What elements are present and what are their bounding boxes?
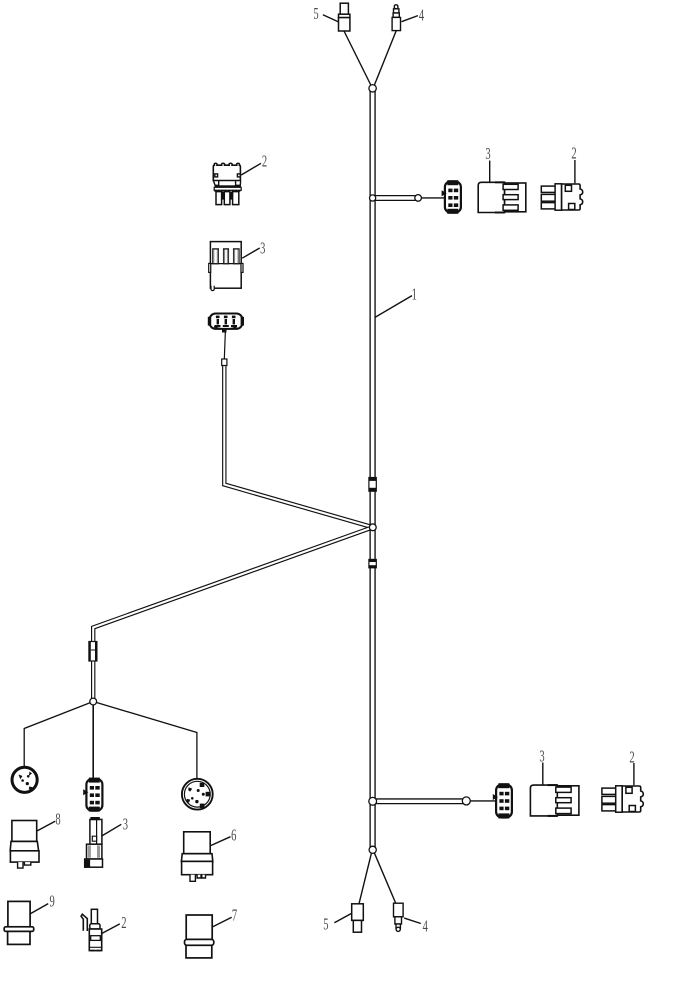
- cover 7: [185, 915, 214, 958]
- label 2 (bottom middle item): [102, 914, 126, 934]
- junction node lower-left: [90, 698, 97, 705]
- node upper branch mid: [415, 195, 422, 202]
- wire bottom-left to connector 5: [359, 853, 372, 904]
- svg-text:2: 2: [629, 748, 634, 767]
- wire left branch from trunk junction (double line): [93, 527, 373, 701]
- wire single to lower right connector: [466, 800, 496, 802]
- connector 5 (top): [339, 3, 350, 31]
- svg-text:2: 2: [121, 914, 126, 933]
- junction node top: [369, 85, 376, 92]
- label 7: [213, 906, 237, 927]
- label 2 (lower right): [629, 748, 634, 785]
- svg-text:4: 4: [423, 917, 428, 936]
- connector 3 (upper right): [478, 181, 526, 213]
- connector 3 (left): [209, 242, 243, 291]
- connector 2 prongs: [216, 192, 222, 205]
- label 8: [37, 810, 60, 831]
- svg-text:2: 2: [571, 144, 576, 163]
- label 5 (top): [313, 5, 338, 24]
- svg-text:4: 4: [419, 6, 424, 25]
- harness-side 3-pin connector (upper right, dark): [442, 180, 461, 214]
- label 3 (upper right): [485, 145, 490, 182]
- svg-text:8: 8: [55, 810, 60, 829]
- connector 4 (bottom): [394, 903, 404, 931]
- sleeve on left branch wire: [89, 642, 97, 662]
- sleeve band on trunk lower: [369, 559, 376, 567]
- sleeve band on trunk upper: [369, 478, 376, 492]
- svg-text:6: 6: [231, 826, 236, 845]
- svg-text:7: 7: [232, 906, 237, 925]
- wire main trunk (double line): [369, 89, 375, 850]
- node lower branch mid: [462, 797, 470, 805]
- label 4 (bottom): [404, 917, 428, 936]
- wire top-left from connector 5 to junction: [344, 31, 372, 87]
- connector 3 (bottom-left item): [85, 817, 103, 867]
- junction node bottom: [369, 846, 376, 853]
- label 5 (bottom): [323, 913, 351, 934]
- svg-text:2: 2: [262, 152, 267, 171]
- wire fan middle to small connector: [92, 702, 94, 778]
- wire bottom-right to connector 4: [374, 853, 396, 904]
- round 6-pin connector (lower): [182, 779, 213, 810]
- svg-text:9: 9: [49, 892, 54, 911]
- svg-text:5: 5: [313, 5, 318, 24]
- wire top-right from connector 4 to junction: [374, 31, 397, 88]
- label 6: [211, 826, 237, 845]
- cover 9: [4, 901, 34, 944]
- svg-text:3: 3: [260, 239, 265, 258]
- wire branch right upper (double line): [373, 195, 418, 201]
- connector 2 (upper-left): [213, 163, 241, 204]
- connector 4 (top): [392, 5, 400, 31]
- svg-text:3: 3: [539, 747, 544, 766]
- wire end cap: [222, 359, 227, 366]
- svg-text:5: 5: [323, 915, 328, 934]
- junction node lower branch: [369, 797, 377, 805]
- wire fan left to round connector: [24, 702, 93, 767]
- connector 2 band: [214, 187, 241, 190]
- wire fan right to round connector: [93, 702, 197, 779]
- label 3 (bottom left item): [102, 815, 129, 836]
- oval connector (top view): [208, 314, 244, 333]
- junction node upper branch: [370, 195, 376, 201]
- harness-side 3-pin connector (lower right, dark): [493, 783, 512, 818]
- wire from oval connector down and diagonal to trunk (double line): [224, 361, 372, 527]
- connector 2 (bottom middle item): [81, 909, 102, 950]
- wire from oval connector (thin lead): [224, 331, 225, 360]
- label 2 (upper right): [571, 144, 576, 183]
- label 1 (main harness): [375, 285, 417, 318]
- round 3-pin connector (lower left): [12, 767, 37, 792]
- relay 6: [181, 832, 212, 882]
- svg-text:3: 3: [123, 815, 128, 834]
- svg-text:3: 3: [485, 145, 490, 164]
- connector 3 (lower right): [530, 784, 579, 817]
- connector 2 (lower right): [602, 786, 643, 812]
- label 3 (left): [242, 239, 265, 258]
- relay 8: [10, 821, 39, 869]
- label 4 (top): [402, 6, 425, 25]
- wire branch right lower (double line): [373, 798, 466, 804]
- label 9: [30, 892, 55, 914]
- label 3 (lower right): [539, 747, 544, 785]
- harness-side 3-pin connector (bottom middle, dark): [83, 778, 102, 812]
- label 2 (upper left): [241, 152, 267, 175]
- connector 5 (bottom): [352, 904, 364, 932]
- wire single to upper right connector: [418, 197, 445, 199]
- connector 2 (upper right): [541, 184, 582, 210]
- connector 2 shoulder: [213, 181, 240, 186]
- junction node middle: [369, 524, 376, 531]
- svg-text:1: 1: [412, 285, 417, 304]
